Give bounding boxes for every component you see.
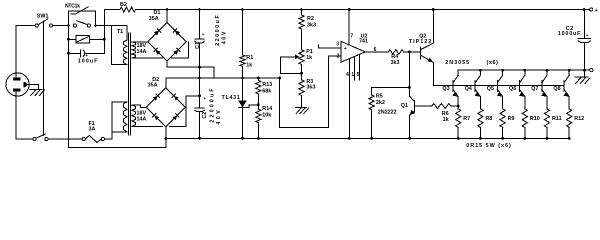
- svg-text:2N2222: 2N2222: [378, 109, 397, 115]
- T1 secondary S2 18V 14A: [132, 105, 135, 126]
- wire - fuse to transformer primary bottom: [105, 138, 113, 140]
- resistor R12 0R15: [568, 97, 570, 109]
- svg-text:Q1: Q1: [401, 103, 408, 109]
- svg-text:22000uF: 22000uF: [215, 14, 221, 46]
- svg-text:+: +: [586, 33, 589, 38]
- T1 primary lower winding: [112, 131, 127, 133]
- svg-text:Q4: Q4: [465, 86, 472, 92]
- svg-text:1: 1: [351, 72, 354, 78]
- wire - pin 7 to + rail: [348, 8, 351, 11]
- svg-text:B2: B2: [120, 2, 127, 8]
- relay contact RE1 (parallel with NTC): [73, 24, 76, 27]
- resistor R13 68k: [257, 77, 260, 80]
- wire - D1 bottom corner to mid link: [166, 61, 168, 67]
- wire - R4 node down to Q1 collector: [408, 52, 410, 88]
- svg-text:Q6: Q6: [509, 86, 516, 92]
- transistor Q7 2N3055: [541, 81, 543, 92]
- wire - relay block to transformer primary: [97, 25, 111, 27]
- wire - TL431 ref hook to R13/R14 junction: [247, 105, 259, 108]
- svg-text:TIP122: TIP122: [409, 39, 432, 45]
- base rail of output transistors: [433, 84, 564, 86]
- svg-text:100uF: 100uF: [78, 58, 99, 64]
- transistor Q4 2N3055: [474, 81, 476, 92]
- wire - coil right riser to B2 resistor line: [103, 10, 105, 40]
- switch SW1 pole A: [35, 24, 38, 27]
- svg-text:R2: R2: [307, 16, 314, 22]
- output terminal -: [584, 69, 590, 71]
- wire - mains live from plug top pin up to SW1: [16, 26, 35, 78]
- svg-text:1k: 1k: [246, 62, 252, 68]
- svg-text:35A: 35A: [148, 83, 158, 89]
- relay coil RE1: [68, 26, 70, 40]
- svg-text:Q3: Q3: [442, 86, 449, 92]
- svg-text:T1: T1: [117, 29, 123, 35]
- resistor R11 0R15: [546, 97, 548, 109]
- resistor R14 10k: [257, 105, 259, 109]
- resistor R8 0R15: [479, 97, 481, 109]
- svg-text:14A: 14A: [137, 49, 147, 55]
- svg-text:2N3055: 2N3055: [445, 60, 470, 66]
- wire - SW1b to fuse: [48, 138, 82, 140]
- op-amp U2 741: [341, 41, 365, 62]
- transistor Q2 TIP122: [420, 47, 422, 59]
- wire - D2 right corner to C2 column: [185, 96, 187, 107]
- svg-text:3A: 3A: [89, 127, 96, 133]
- svg-text:3k3: 3k3: [306, 85, 315, 91]
- ground - output chassis ground: [583, 70, 585, 77]
- resistor R4 3k3: [388, 50, 403, 55]
- wire - R4 node to Q2 base: [409, 51, 420, 53]
- svg-text:741: 741: [359, 38, 368, 44]
- wire - Q2 emitter to base rail of output transistors: [432, 63, 434, 86]
- resistor R9 0R15: [502, 97, 504, 109]
- svg-text:1k: 1k: [306, 55, 312, 61]
- svg-text:68k: 68k: [262, 88, 271, 94]
- svg-text:+: +: [202, 32, 205, 37]
- bridge rectifier D2 35A: [146, 88, 185, 127]
- node - relay contact right junction: [94, 24, 97, 27]
- resistor B2 (relay dropper): [120, 7, 136, 12]
- bridge rectifier D1 35A: [148, 22, 187, 61]
- svg-text:Q8: Q8: [553, 86, 560, 92]
- svg-text:35A: 35A: [149, 16, 159, 22]
- node - NTC left junction: [67, 24, 70, 27]
- svg-text:7: 7: [350, 34, 353, 40]
- svg-text:3: 3: [336, 41, 339, 47]
- svg-text:C2: C2: [202, 112, 208, 119]
- collector rail of output transistors: [458, 69, 584, 71]
- transistor Q3 2N3055: [452, 81, 454, 92]
- transistor Q5 2N3055: [496, 81, 498, 92]
- capacitor C2 22000uF 40V: [195, 107, 204, 109]
- svg-text:40V: 40V: [216, 108, 222, 125]
- resistor R2 3k3: [300, 8, 303, 11]
- ground - below R3: [295, 106, 306, 108]
- svg-text:R9: R9: [508, 116, 515, 122]
- svg-text:1000uF: 1000uF: [558, 31, 581, 37]
- wire - Q6 collector to rail: [524, 70, 526, 75]
- capacitor C1 22000uF 40V: [199, 10, 201, 40]
- svg-text:SW1: SW1: [37, 13, 49, 19]
- svg-text:Q7: Q7: [531, 86, 538, 92]
- svg-text:R11: R11: [552, 116, 562, 122]
- svg-text:2: 2: [337, 53, 340, 59]
- op-amp pins 4 1 5: [348, 60, 350, 139]
- svg-text:(x6): (x6): [487, 60, 499, 66]
- transistor Q8 2N3055: [563, 81, 565, 92]
- wire - mains neutral from plug bottom pin to SW1b: [16, 92, 33, 139]
- svg-text:4: 4: [346, 72, 349, 78]
- svg-text:NTC1k: NTC1k: [65, 3, 80, 9]
- wire - Q3 collector to rail: [457, 70, 459, 75]
- svg-text:C1: C1: [195, 42, 201, 49]
- svg-text:40V: 40V: [221, 30, 227, 44]
- svg-text:R5: R5: [376, 94, 383, 100]
- T1 primary upper winding: [111, 26, 113, 65]
- negative DC rail: [166, 137, 569, 139]
- svg-text:TL431: TL431: [222, 95, 241, 101]
- svg-text:14A: 14A: [137, 116, 147, 122]
- wire - Q2 collector to + rail: [432, 10, 434, 44]
- svg-text:+: +: [203, 96, 206, 101]
- top + rail: [103, 9, 105, 11]
- wire - op-amp output pin 6: [365, 51, 388, 53]
- ground - plug earth pin chassis: [27, 84, 39, 86]
- output terminal +: [590, 8, 593, 11]
- thermistor NTC1 (inrush limiter): [68, 11, 70, 26]
- resistor R3 3k3: [301, 73, 303, 80]
- wire - Q7 collector to rail: [546, 70, 548, 75]
- T1 core: [127, 33, 129, 135]
- wire - D1 top corner to + rail: [166, 10, 168, 23]
- wire - SW1a to NTC block: [53, 25, 68, 27]
- svg-text:10k: 10k: [262, 112, 271, 118]
- svg-text:R4: R4: [391, 54, 398, 60]
- fuse F1 3A: [82, 137, 85, 140]
- svg-text:1k: 1k: [443, 117, 449, 123]
- wire - SW1 mechanical coupling link: [42, 22, 44, 136]
- wire - S1 bottom to bridge D1 right corner: [132, 57, 163, 59]
- svg-text:0R15 5W (x6): 0R15 5W (x6): [466, 143, 512, 149]
- resistor R7 0R15: [457, 97, 459, 109]
- svg-text:R1: R1: [246, 55, 253, 61]
- svg-text:6: 6: [374, 47, 377, 53]
- resistor R10 0R15: [524, 97, 526, 109]
- wire - cap left line down to DC ground detour: [68, 53, 70, 147]
- svg-text:R8: R8: [485, 116, 492, 122]
- wire - NTC right vertical: [95, 11, 97, 26]
- T1 secondary S1 18V 14A: [132, 42, 135, 58]
- svg-text:R14: R14: [262, 106, 272, 112]
- wire - op-amp pin 3 input with stub: [318, 45, 340, 48]
- svg-text:3k3: 3k3: [307, 23, 316, 29]
- wire - S2 bottom to bridge D2 right corner: [132, 125, 162, 127]
- svg-text:R7: R7: [463, 116, 470, 122]
- svg-text:3k3: 3k3: [391, 60, 400, 66]
- resistor R6 1k: [432, 104, 451, 109]
- svg-text:22000uF: 22000uF: [210, 86, 216, 122]
- wire - D2 top corner to mid wire: [165, 78, 167, 88]
- transistor Q6 2N3055: [519, 81, 521, 92]
- wire - C1/C2 column mid section: [199, 67, 201, 108]
- transistor Q1 2N2222: [409, 87, 411, 96]
- wire - feedback from mid wire to op-amp pin 2: [280, 56, 341, 128]
- svg-text:R13: R13: [262, 82, 272, 88]
- wire - Q8 collector to rail: [568, 70, 570, 75]
- svg-text:Q5: Q5: [487, 86, 494, 92]
- resistor R5 2k2: [372, 86, 410, 88]
- potentiometer P1 1k: [299, 50, 304, 65]
- mains plug: [6, 73, 29, 96]
- wire - D2 bottom corner to negative rail: [165, 127, 167, 138]
- wire - S1 top to bridge D1 left corner: [132, 41, 148, 43]
- svg-text:2k2: 2k2: [376, 100, 385, 106]
- wire - S2 top to bridge D2 left corner: [132, 104, 141, 106]
- resistor R1 1k: [241, 8, 244, 11]
- svg-text:+: +: [344, 46, 347, 52]
- mid reference wire: [214, 77, 279, 79]
- svg-text:R10: R10: [530, 116, 540, 122]
- TL431 shunt reference: [242, 78, 244, 101]
- svg-text:+: +: [595, 8, 599, 14]
- svg-text:R12: R12: [574, 116, 584, 122]
- wire - Q5 collector to rail: [502, 70, 504, 75]
- wire - Q4 collector to rail: [479, 70, 481, 75]
- switch SW1 pole B: [33, 137, 36, 140]
- capacitor 100uF (relay delay): [68, 39, 70, 53]
- svg-text:5: 5: [357, 72, 360, 78]
- capacitor C3 1000uF: [583, 8, 586, 11]
